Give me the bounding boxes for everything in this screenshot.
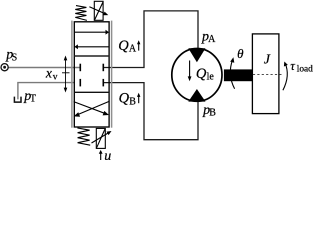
solenoid bottom diagonal xyxy=(97,129,105,148)
xv dimension arrow xyxy=(62,56,70,93)
shaft xyxy=(224,69,253,81)
shaft axis dashed line xyxy=(253,74,284,76)
svg-text:x: x xyxy=(45,66,52,81)
valve top-position arrow right xyxy=(75,30,109,35)
svg-text:τ: τ xyxy=(290,59,295,73)
valve divider 1 xyxy=(74,55,109,57)
solenoid top arrow xyxy=(89,7,108,16)
valve port T-bar right row1 xyxy=(102,64,104,71)
valve body box xyxy=(74,22,109,127)
solenoid top box xyxy=(94,1,103,20)
svg-text:B: B xyxy=(129,96,136,107)
svg-text:A: A xyxy=(208,34,216,45)
wire pS supply line xyxy=(9,67,81,69)
pressure source symbol (circled dot) xyxy=(1,64,8,71)
valve crossed-position arrow to bottom-left xyxy=(74,101,110,117)
svg-text:B: B xyxy=(209,108,216,119)
svg-text:J: J xyxy=(264,52,271,67)
solenoid bottom box xyxy=(96,128,105,148)
motor outlet triangle bottom xyxy=(188,89,205,102)
svg-text:load: load xyxy=(297,65,313,75)
svg-text:u: u xyxy=(104,149,111,160)
Qle flow arrow xyxy=(188,61,192,82)
valve port T-bar left row1 xyxy=(79,64,81,71)
svg-text:le: le xyxy=(207,72,215,83)
wire QB stub to riser xyxy=(103,83,198,140)
wire QA stub to riser xyxy=(103,11,198,68)
motor circle xyxy=(172,49,222,102)
spring bottom xyxy=(77,128,90,145)
svg-text:A: A xyxy=(129,44,137,55)
valve port T-bar right row2 xyxy=(102,79,104,87)
svg-text:Q: Q xyxy=(118,38,129,54)
solenoid top diagonal xyxy=(95,2,103,20)
svg-text:S: S xyxy=(12,53,18,64)
valve port T-bar left row2 xyxy=(79,79,81,87)
solenoid bottom arrow xyxy=(92,131,112,143)
spring top xyxy=(75,6,87,21)
svg-text:v: v xyxy=(53,72,58,82)
valve crossed-position arrow to bottom-right xyxy=(74,102,109,116)
motor inlet triangle top xyxy=(188,48,205,62)
svg-text:θ: θ xyxy=(237,46,244,61)
tau load arrow xyxy=(283,63,287,90)
tank symbol xyxy=(14,97,21,103)
svg-text:T: T xyxy=(30,94,36,105)
theta rotation arrow xyxy=(230,60,234,89)
valve divider 2 xyxy=(74,91,109,93)
svg-text:Q: Q xyxy=(119,91,130,107)
input u arrow xyxy=(99,150,103,160)
inertia box J xyxy=(252,34,279,114)
wire pT return line xyxy=(18,83,74,100)
svg-text:Q: Q xyxy=(196,66,207,82)
valve proportional side rails (double lines) xyxy=(71,21,73,128)
valve top-position arrow left xyxy=(74,44,108,49)
